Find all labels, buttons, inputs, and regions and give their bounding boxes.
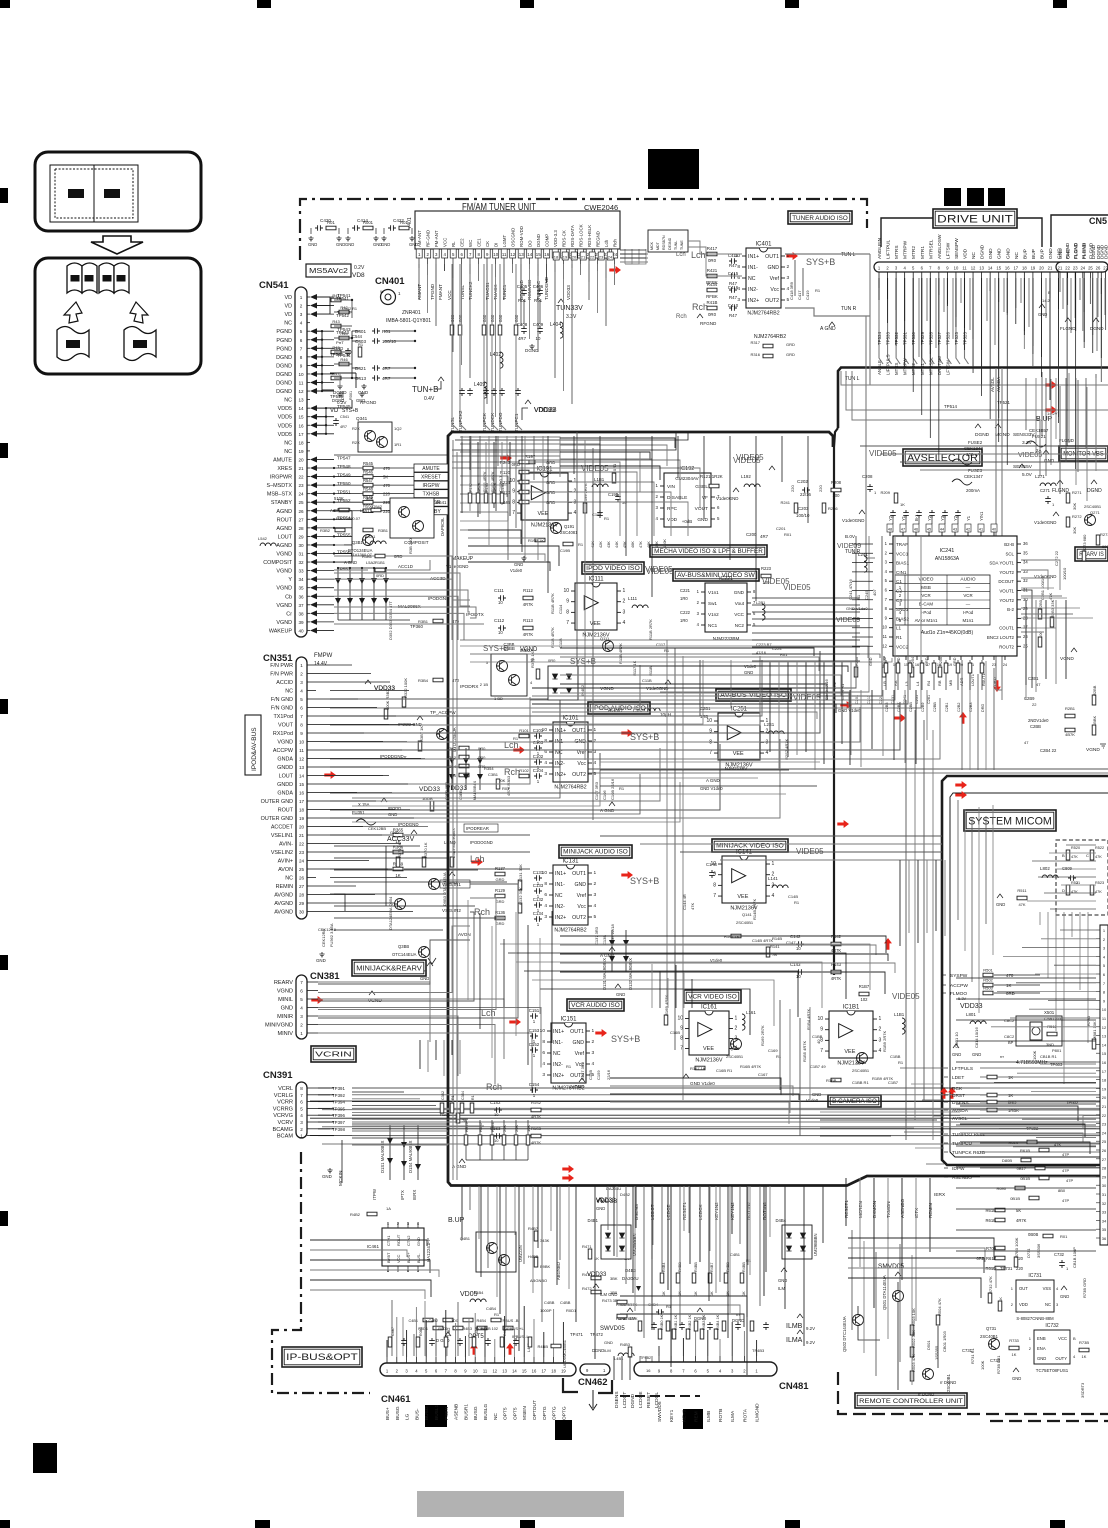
svg-text:30: 30: [1102, 1183, 1107, 1188]
svg-text:7: 7: [566, 620, 569, 626]
svg-text:12: 12: [882, 643, 887, 648]
bundle: upper mid horizontals to monitor: [860, 445, 1108, 447]
IC241 AN15863A selector: [893, 536, 1017, 656]
ipod tx rx rows: [433, 619, 443, 623]
svg-text:R001: R001: [363, 220, 374, 225]
svg-text:5: 5: [594, 914, 597, 920]
video sw IC221: [705, 583, 747, 632]
bundle: mid horizontals upper: [460, 437, 560, 477]
svg-text:RFBK: RFBK: [706, 294, 718, 299]
svg-text:470: 470: [1006, 973, 1014, 978]
svg-text:TP4B2: TP4B2: [640, 1356, 651, 1360]
svg-text:OUTER GND: OUTER GND: [261, 816, 293, 822]
svg-text:R61B: R61B: [986, 1266, 997, 1271]
svg-text:LCDOT: LCDOT: [650, 1204, 655, 1220]
wires right column: [1039, 440, 1041, 476]
svg-text:27: 27: [1102, 1157, 1107, 1162]
svg-text:20: 20: [572, 255, 577, 260]
svg-text:TP542: TP542: [336, 313, 349, 318]
svg-text:2NDV1de0: 2NDV1de0: [1028, 718, 1049, 723]
svg-text:R61B: R61B: [1020, 1148, 1030, 1153]
svg-text:28: 28: [1102, 1166, 1107, 1171]
svg-text:C2B4 22: C2B4 22: [1040, 748, 1057, 753]
micom input rows left of border: [900, 1067, 944, 1069]
svg-text:R01: R01: [327, 220, 335, 225]
svg-text:MINIR: MINIR: [277, 1014, 293, 1020]
svg-text:Q141: Q141: [742, 912, 753, 917]
svg-text:C416: C416: [728, 285, 739, 290]
svg-text:LOUT: LOUT: [279, 774, 294, 780]
svg-text:C3B1: C3B1: [488, 772, 499, 777]
svg-text:ILMB: ILMB: [786, 1323, 803, 1330]
svg-text:Lch: Lch: [691, 250, 706, 260]
svg-text:2SC40B1: 2SC40B1: [980, 1334, 999, 1339]
svg-text:100/10: 100/10: [1062, 567, 1067, 580]
dense right column wires: [1025, 378, 1027, 430]
svg-text:MTR2: MTR2: [911, 246, 917, 259]
svg-text:C2: C2: [896, 589, 902, 594]
svg-text:Cr: Cr: [286, 611, 292, 617]
svg-text:24: 24: [1080, 266, 1085, 271]
svg-text:1K: 1K: [710, 1291, 714, 1296]
svg-text:C4B2: C4B2: [429, 1319, 439, 1323]
CN541 top rows wiring: [313, 296, 330, 298]
svg-text:SDA YOUT1: SDA YOUT1: [989, 561, 1014, 566]
svg-text:3: 3: [300, 680, 303, 685]
op-amp IC401: [735, 242, 790, 317]
svg-text:DGND: DGND: [276, 355, 292, 361]
staircase wires below tuner: [455, 432, 688, 440]
legend icon: spread pages: [35, 152, 201, 231]
svg-text:IN1+: IN1+: [555, 871, 566, 877]
svg-text:AV or M1n1: AV or M1n1: [915, 618, 938, 623]
svg-text:17: 17: [541, 1369, 546, 1374]
svg-text:200mA: 200mA: [966, 488, 980, 493]
svg-text:R4B9: R4B9: [503, 1327, 507, 1336]
svg-text:CB1B R1: CB1B R1: [1040, 1054, 1057, 1059]
svg-text:10: 10: [498, 630, 503, 635]
CN541 ground bus wiring: [322, 331, 334, 390]
svg-text:IPODREAR: IPODREAR: [466, 826, 489, 831]
svg-text:V1de0: V1de0: [510, 568, 523, 573]
svg-text:VEE: VEE: [537, 511, 548, 517]
svg-text:L2S1: L2S1: [764, 722, 775, 727]
svg-text:R01: R01: [382, 329, 391, 334]
verticals between avsel and micom: [849, 690, 851, 765]
svg-text:TP523: TP523: [963, 332, 968, 345]
IC731: [1016, 1280, 1054, 1312]
svg-text:VCRVG: VCRVG: [273, 1113, 293, 1119]
svg-text:24: 24: [1003, 663, 1007, 667]
svg-text:10: 10: [473, 1369, 478, 1374]
svg-text:21: 21: [1102, 1104, 1107, 1109]
svg-text:11: 11: [962, 266, 967, 271]
svg-text:44: 44: [940, 528, 944, 532]
svg-text:7: 7: [300, 714, 303, 719]
svg-text:DXMON: DXMON: [872, 1201, 877, 1218]
svg-text:AMUTE: AMUTE: [273, 457, 292, 463]
svg-text:R523: R523: [1095, 881, 1104, 885]
svg-text:D413: D413: [355, 376, 366, 381]
svg-text:R4B2: R4B2: [350, 1212, 361, 1217]
svg-text:R1: R1: [566, 1064, 572, 1069]
svg-text:C1BB: C1BB: [812, 1034, 823, 1039]
svg-text:1Q2: 1Q2: [394, 426, 402, 431]
svg-text:10: 10: [1102, 1007, 1107, 1012]
svg-text:C10B 22/16: C10B 22/16: [610, 778, 615, 800]
svg-text:2: 2: [300, 304, 303, 309]
svg-text:1: 1: [574, 478, 577, 484]
svg-text:1R1: 1R1: [394, 442, 402, 447]
svg-text:220: 220: [383, 509, 391, 514]
svg-text:ANGLOSW: ANGLOSW: [937, 234, 943, 259]
svg-text:19: 19: [563, 255, 568, 260]
svg-text:11: 11: [502, 252, 507, 257]
svg-text:3: 3: [542, 1072, 545, 1078]
svg-text:15: 15: [996, 266, 1001, 271]
svg-text:2: 2: [300, 1127, 303, 1132]
svg-text:DAP9C9L: DAP9C9L: [440, 517, 445, 536]
svg-text:0.2V: 0.2V: [354, 265, 365, 271]
svg-text:32: 32: [1023, 578, 1028, 583]
svg-text:R11B 4R7K: R11B 4R7K: [550, 593, 555, 614]
svg-text:C1B7: C1B7: [888, 1080, 899, 1085]
svg-text:TP360: TP360: [410, 624, 423, 629]
svg-text:PSEN: PSEN: [444, 1406, 450, 1420]
drive unit full drop fan: [878, 278, 880, 288]
svg-text:VEE: VEE: [844, 1049, 855, 1055]
svg-text:13: 13: [519, 252, 524, 257]
svg-text:DGND: DGND: [1090, 326, 1104, 331]
svg-text:R223: R223: [761, 566, 772, 571]
svg-text:7: 7: [713, 893, 716, 899]
svg-text:C131: C131: [533, 870, 544, 875]
svg-text:510K: 510K: [334, 496, 344, 501]
upper mid vertical rain: [469, 436, 471, 470]
svg-text:2SC40B1: 2SC40B1: [736, 920, 754, 925]
svg-text:GND: GND: [574, 882, 586, 888]
svg-text:COMPOSIT: COMPOSIT: [404, 540, 429, 545]
svg-text:3SDRT3: 3SDRT3: [1080, 1382, 1085, 1398]
svg-text:VGND: VGND: [277, 740, 293, 746]
svg-text:R47: R47: [729, 295, 738, 300]
svg-text:ACCDET: ACCDET: [271, 825, 294, 831]
svg-text:1: 1: [594, 870, 597, 876]
svg-text:GND: GND: [812, 1092, 821, 1097]
svg-text:2SC40B1: 2SC40B1: [852, 1068, 870, 1073]
svg-text:18: 18: [1022, 266, 1027, 271]
svg-text:V1de0GND: V1de0GND: [716, 496, 738, 501]
svg-text:AV-BUS&MINI VIDEO SW: AV-BUS&MINI VIDEO SW: [677, 572, 755, 579]
wire comb: minijack to vcr gap: [560, 936, 886, 953]
svg-text:R4BB: R4BB: [742, 1262, 746, 1272]
svg-text:36: 36: [1102, 1236, 1107, 1241]
svg-text:TP547: TP547: [337, 455, 351, 460]
svg-text:18: 18: [298, 440, 304, 445]
more left rows CN541 amute block wires: [447, 461, 449, 463]
svg-text:DGND: DGND: [980, 244, 986, 259]
svg-text:45: 45: [927, 528, 931, 532]
svg-text:A GND: A GND: [706, 778, 720, 783]
svg-text:R1BB: R1BB: [826, 1078, 837, 1083]
svg-text:4R7K: 4R7K: [831, 976, 842, 981]
svg-text:ILM: ILM: [778, 1286, 785, 1291]
svg-text:AGND: AGND: [276, 509, 292, 515]
svg-text:V1de0: V1de0: [806, 1098, 819, 1103]
svg-text:GND: GND: [604, 1340, 613, 1345]
svg-text:13: 13: [979, 266, 984, 271]
wire comb: mid 700: [532, 688, 820, 698]
svg-text:R147 1K: R147 1K: [724, 934, 740, 939]
svg-text:47K: 47K: [639, 541, 643, 548]
svg-text:RFGND: RFGND: [700, 321, 717, 326]
svg-text:C14B 4R7K: C14B 4R7K: [752, 938, 773, 943]
svg-text:5: 5: [300, 697, 303, 702]
svg-text:AUDIO: AUDIO: [960, 577, 975, 583]
curled sheets: [57, 327, 89, 361]
svg-text:40: 40: [816, 1039, 821, 1044]
svg-text:NC: NC: [284, 398, 292, 404]
op-amp IC161 vcr video: [677, 1005, 737, 1064]
svg-text:NJM2764RB2: NJM2764RB2: [554, 928, 586, 934]
svg-text:MSEN: MSEN: [522, 1406, 528, 1420]
svg-text:SYS+B: SYS+B: [806, 257, 835, 267]
svg-text:R1: R1: [619, 786, 625, 791]
svg-text:1K: 1K: [1082, 1354, 1087, 1359]
svg-text:AVON: AVON: [458, 932, 471, 937]
svg-text:C1BB R1: C1BB R1: [852, 1080, 869, 1085]
svg-text:C104: C104: [533, 768, 544, 773]
svg-text:VGND: VGND: [276, 620, 292, 626]
IC732: [1034, 1330, 1070, 1364]
svg-text:R471: R471: [582, 1244, 592, 1249]
svg-text:NJM2764RB2: NJM2764RB2: [554, 785, 586, 791]
svg-text:DTA124EUA Q354: DTA124EUA Q354: [388, 896, 393, 930]
bundle: cn351 rows long right: [330, 669, 560, 699]
svg-text:ACCID: ACCID: [276, 680, 293, 686]
svg-text:REM: REM: [694, 1411, 700, 1422]
svg-text:VGND: VGND: [276, 552, 292, 558]
svg-text:BUSG: BUSG: [395, 1406, 401, 1420]
svg-text:VDD5: VDD5: [278, 406, 292, 412]
svg-text:IN4B2: IN4B2: [580, 684, 585, 696]
grey footer box: [417, 1491, 624, 1517]
svg-text:47K: 47K: [690, 903, 695, 910]
svg-text:C3B4: C3B4: [461, 1091, 465, 1100]
svg-text:100/10: 100/10: [382, 339, 396, 344]
IC241 top caps row: [890, 510, 896, 518]
svg-text:PπT: PπT: [336, 340, 344, 345]
svg-text:C159: C159: [596, 1070, 601, 1080]
micom long rows to edge: [956, 977, 1096, 979]
svg-text:IPTX: IPTX: [400, 1190, 405, 1200]
svg-text:33: 33: [298, 569, 304, 574]
svg-text:3: 3: [623, 609, 626, 615]
svg-text:C203: C203: [798, 506, 809, 511]
CN541 row wires: [334, 467, 448, 469]
svg-text:VCRV: VCRV: [278, 1120, 294, 1126]
svg-text:1: 1: [300, 1134, 303, 1139]
svg-text:F/N GND: F/N GND: [271, 697, 293, 703]
svg-text:R4B1 4R7K: R4B1 4R7K: [616, 1302, 637, 1307]
svg-text:47P: 47P: [1062, 1168, 1069, 1173]
svg-text:MB: MB: [948, 680, 953, 686]
svg-text:C2B1: C2B1: [945, 703, 949, 713]
svg-text:16: 16: [299, 791, 305, 796]
svg-text:ENB: ENB: [1037, 1336, 1046, 1341]
svg-text:GND: GND: [345, 242, 354, 247]
svg-text:4: 4: [544, 760, 547, 766]
svg-text:TXMON: TXMON: [886, 1201, 891, 1218]
svg-text:35: 35: [298, 586, 304, 591]
svg-text:VDD33: VDD33: [566, 285, 571, 300]
svg-text:TP391: TP391: [332, 1086, 345, 1091]
svg-text:SYS+B: SYS+B: [630, 876, 659, 886]
CN381 wires east: [318, 982, 430, 1042]
svg-text:C142: C142: [790, 934, 801, 939]
svg-text:15: 15: [1102, 1051, 1107, 1056]
svg-text:OUT2: OUT2: [572, 772, 586, 778]
svg-text:SWVD05: SWVD05: [600, 1326, 625, 1332]
svg-text:GND: GND: [281, 1006, 293, 1012]
svg-text:0RD: 0RD: [394, 554, 402, 559]
svg-text:9: 9: [512, 489, 515, 495]
svg-text:TUNSL: TUNSL: [460, 284, 465, 300]
svg-text:4: 4: [623, 620, 626, 626]
svg-text:rr DGND: rr DGND: [918, 1392, 934, 1397]
svg-text:L801: L801: [966, 1012, 976, 1017]
svg-text:DGND: DGND: [536, 234, 541, 247]
svg-text:D80B: D80B: [1002, 1158, 1012, 1163]
svg-text:10: 10: [494, 1112, 499, 1117]
svg-text:0B0B: 0B0B: [1028, 1232, 1038, 1237]
svg-text:ITPW: ITPW: [372, 1188, 377, 1200]
svg-text:R4B4 1K: R4B4 1K: [716, 1314, 720, 1330]
op-amp IC141 minijack video: [710, 850, 774, 912]
svg-text:R731 R1: R731 R1: [970, 1347, 975, 1364]
cn461 upper component rows: [388, 1337, 392, 1347]
svg-text:3: 3: [544, 914, 547, 920]
svg-text:16: 16: [544, 252, 549, 257]
svg-text:AVSCL: AVSCL: [952, 1116, 968, 1122]
svg-text:R3B7 1K: R3B7 1K: [419, 726, 424, 742]
svg-text:R1: R1: [513, 736, 519, 741]
svg-text:4R7: 4R7: [340, 425, 347, 429]
left mid horizontal rain: [334, 845, 420, 847]
svg-text:R1: R1: [794, 900, 800, 905]
svg-text:RDS-HSLK: RDS-HSLK: [587, 225, 592, 247]
micom dashed option box: [1056, 840, 1108, 915]
svg-text:VDD33: VDD33: [374, 685, 395, 692]
drive unit long drops: [972, 278, 974, 367]
svg-text:TP395: TP395: [332, 1106, 345, 1111]
cn462 to cn481 gap parts: [613, 1356, 615, 1380]
svg-text:LCDOT: LCDOT: [622, 1392, 628, 1408]
svg-text:DRSTSW: DRSTSW: [937, 355, 942, 375]
svg-text:GND: GND: [308, 242, 317, 247]
wires from drive area down: [995, 368, 997, 690]
svg-text:IPODRX: IPODRX: [460, 684, 479, 690]
svg-text:IN1+: IN1+: [748, 254, 759, 260]
svg-text:VIDE05: VIDE05: [762, 577, 790, 586]
svg-text:R132 30K: R132 30K: [518, 887, 523, 905]
svg-text:R47: R47: [332, 371, 340, 376]
svg-text:B-1: B-1: [914, 514, 919, 521]
svg-text:L404: L404: [550, 322, 561, 328]
svg-text:22: 22: [590, 255, 595, 260]
svg-text:R2X: R2X: [352, 440, 360, 445]
svg-text:OUT: OUT: [1019, 1286, 1028, 1291]
svg-text:34: 34: [1102, 1218, 1107, 1223]
svg-text:3: 3: [544, 771, 547, 777]
heavy dashed corners under CN462: [563, 1378, 578, 1392]
svg-text:15: 15: [298, 415, 304, 420]
svg-text:C133: C133: [533, 883, 544, 888]
svg-text:VOUT1: VOUT1: [999, 589, 1014, 594]
svg-text:PGND: PGND: [276, 338, 292, 344]
svg-text:BUSR1: BUSR1: [463, 1404, 469, 1420]
svg-text:DRD: DRD: [981, 704, 985, 712]
svg-text:FMPW: FMPW: [314, 653, 333, 659]
svg-text:2: 2: [623, 599, 626, 605]
svg-text:1A: 1A: [386, 1206, 391, 1211]
ip-bus opt dashed border: [272, 1152, 370, 1393]
diode cluster above heavy line: [389, 1125, 391, 1180]
svg-text:31: 31: [298, 552, 304, 557]
svg-text:39: 39: [298, 620, 304, 625]
svg-text:RDSB7N: RDSB7N: [662, 235, 666, 250]
svg-text:C1B7 49: C1B7 49: [810, 1064, 826, 1069]
svg-text:C200: C200: [746, 532, 757, 537]
svg-text:NC: NC: [284, 440, 292, 446]
svg-text:29: 29: [298, 534, 304, 539]
svg-text:MCKIN: MCKIN: [338, 1170, 344, 1186]
AVSELECTOR label: [903, 449, 982, 466]
svg-text:13: 13: [1102, 1034, 1107, 1039]
svg-text:14: 14: [1102, 1042, 1107, 1047]
svg-text:220: 220: [383, 492, 391, 497]
svg-text:CN481: CN481: [779, 1381, 809, 1392]
svg-text:R11B: R11B: [648, 666, 653, 676]
svg-text:TP531: TP531: [903, 332, 908, 345]
svg-text:NC: NC: [971, 252, 977, 259]
svg-text:14: 14: [512, 1369, 517, 1374]
svg-text:XRES: XRES: [277, 466, 292, 472]
svg-text:Y1: Y1: [901, 515, 906, 521]
svg-text:4R7K: 4R7K: [523, 632, 534, 637]
svg-text:R01: R01: [780, 652, 788, 657]
REARV ISO label: [1075, 547, 1108, 561]
page registration marks: [0, 0, 10, 8]
svg-text:SENSPW: SENSPW: [954, 238, 960, 259]
svg-text:TP526: TP526: [945, 332, 950, 345]
svg-text:AVGND: AVGND: [274, 901, 293, 907]
svg-text:R501: R501: [983, 968, 993, 973]
svg-text:5: 5: [594, 771, 597, 777]
svg-text:AN15863A: AN15863A: [935, 556, 960, 562]
svg-text:IC732: IC732: [1045, 1323, 1059, 1329]
svg-text:24: 24: [299, 859, 305, 864]
svg-text:4R7: 4R7: [760, 534, 769, 539]
svg-text:1K: 1K: [1008, 1093, 1013, 1098]
svg-text:CE2: CE2: [460, 238, 465, 247]
svg-text:C241 47/16: C241 47/16: [848, 579, 853, 600]
svg-text:GND: GND: [1060, 1294, 1069, 1299]
svg-text:IC111: IC111: [588, 577, 604, 583]
svg-text:43K: 43K: [607, 541, 611, 548]
wire comb: below tuner mid: [560, 438, 675, 448]
svg-text:F/N PWR: F/N PWR: [270, 672, 293, 678]
